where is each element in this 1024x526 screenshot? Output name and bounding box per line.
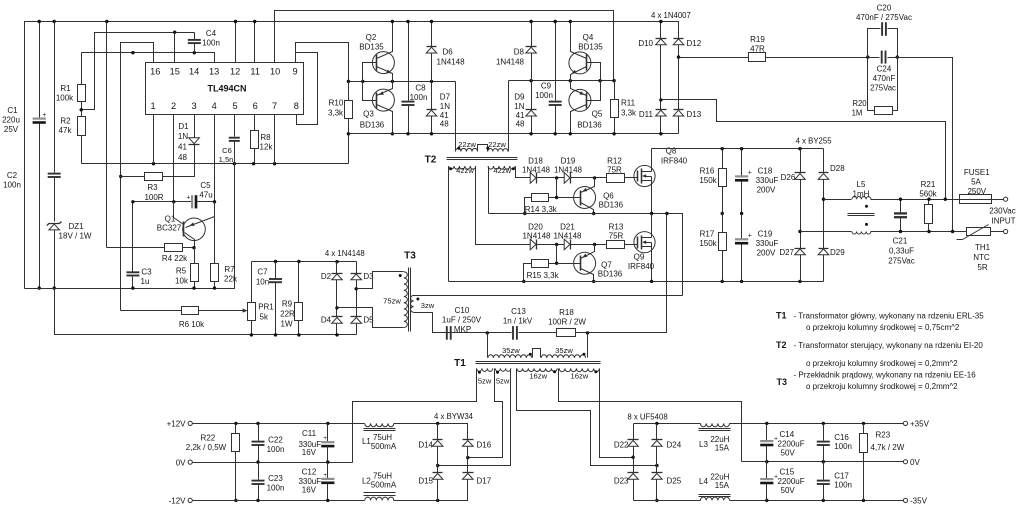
- svg-text:9: 9: [293, 67, 298, 77]
- svg-text:48: 48: [440, 120, 449, 129]
- svg-text:75zw: 75zw: [383, 297, 401, 306]
- transformer T1 core: [476, 362, 601, 364]
- svg-text:C12: C12: [302, 468, 317, 477]
- svg-text:R17: R17: [700, 230, 715, 239]
- diode D16: [463, 440, 492, 450]
- svg-text:Q7: Q7: [601, 261, 612, 270]
- svg-text:C17: C17: [834, 471, 849, 480]
- svg-text:100n: 100n: [3, 181, 21, 190]
- svg-text:D22: D22: [614, 440, 629, 449]
- capacitor C12: [298, 463, 334, 501]
- note T2: [776, 340, 983, 368]
- svg-text:C20: C20: [877, 4, 892, 13]
- svg-text:Q8: Q8: [666, 147, 677, 156]
- svg-text:C15: C15: [780, 468, 795, 477]
- svg-text:100n: 100n: [202, 39, 220, 48]
- capacitor C18: [735, 149, 778, 216]
- transistor Q2 BD135: [359, 20, 394, 82]
- transistor Q7 BD136: [557, 245, 623, 284]
- capacitor C16: [817, 424, 852, 462]
- svg-text:R16: R16: [700, 167, 715, 176]
- svg-text:11: 11: [250, 67, 260, 77]
- svg-text:1N: 1N: [514, 102, 524, 111]
- svg-text:- Transformator sterujący, wyk: - Transformator sterujący, wykonany na r…: [794, 341, 984, 350]
- diode D13: [673, 45, 702, 134]
- svg-text:6: 6: [253, 101, 258, 111]
- capacitor C3: [126, 202, 152, 290]
- mosfet Q9 IRF840: [628, 214, 655, 282]
- svg-text:1N4148: 1N4148: [522, 232, 551, 241]
- wire pin11 stub: [253, 20, 256, 63]
- wire 16zw1 left: [517, 369, 659, 468]
- inductor L2: [362, 472, 468, 503]
- wire ground rail B: [55, 289, 357, 335]
- svg-text:500mA: 500mA: [371, 480, 397, 489]
- svg-text:BD136: BD136: [577, 121, 602, 130]
- svg-text:41: 41: [440, 111, 449, 120]
- capacitor C9: [535, 20, 562, 136]
- svg-text:35zw: 35zw: [555, 346, 573, 355]
- svg-text:2200uF: 2200uF: [778, 439, 805, 448]
- wire pin15 stub: [174, 33, 176, 63]
- note T1: [776, 311, 984, 333]
- resistor R13: [607, 223, 638, 249]
- svg-text:100n: 100n: [535, 91, 553, 100]
- capacitor C11: [298, 424, 334, 463]
- diode D20: [522, 223, 564, 250]
- diode D6: [426, 20, 465, 82]
- svg-text:35zw: 35zw: [502, 346, 520, 355]
- svg-text:C24: C24: [877, 65, 892, 74]
- resistor R1: [56, 53, 86, 117]
- svg-text:16V: 16V: [302, 448, 317, 457]
- svg-text:75R: 75R: [609, 232, 624, 241]
- diode D15: [418, 447, 443, 501]
- resistor R9: [280, 262, 302, 337]
- svg-text:BD136: BD136: [598, 270, 623, 279]
- svg-text:C6: C6: [222, 146, 232, 155]
- transformer T1 secondary 16zw: [517, 368, 600, 380]
- svg-text:1uF / 250V: 1uF / 250V: [442, 316, 482, 325]
- wire hv rail bottom: [449, 280, 824, 283]
- wire T3 primary bottom: [337, 308, 404, 328]
- wire -12V rail: [193, 499, 365, 502]
- terminal mains N: [1004, 229, 1008, 233]
- transistor Q6 BD136: [557, 178, 624, 216]
- diode D27: [779, 180, 805, 282]
- svg-text:5zw: 5zw: [496, 377, 510, 386]
- transformer T2 42zw windings: [449, 166, 516, 175]
- wire ground rail A: [25, 164, 235, 289]
- resistor R10: [328, 82, 353, 164]
- svg-text:0V: 0V: [176, 458, 186, 467]
- svg-text:C10: C10: [455, 306, 470, 315]
- svg-text:Q9: Q9: [634, 253, 645, 262]
- resistor R12: [607, 157, 638, 183]
- resistor R2: [59, 117, 86, 164]
- svg-text:T1: T1: [454, 358, 466, 369]
- resistor R18: [548, 308, 586, 337]
- mosfet Q8 IRF840: [625, 147, 688, 214]
- diode D11: [639, 45, 667, 136]
- svg-text:Q2: Q2: [366, 33, 377, 42]
- svg-text:100n: 100n: [267, 445, 285, 454]
- resistor R17: [699, 214, 726, 282]
- svg-text:1n / 1kV: 1n / 1kV: [503, 317, 533, 326]
- svg-text:16V: 16V: [302, 486, 317, 495]
- svg-text:R3: R3: [147, 183, 158, 192]
- svg-text:2,2k / 0,5W: 2,2k / 0,5W: [186, 443, 227, 452]
- diode D29: [818, 180, 845, 282]
- wire 3zw top: [414, 295, 683, 297]
- svg-text:560k: 560k: [919, 190, 937, 199]
- svg-text:1: 1: [150, 101, 155, 111]
- diode D17: [463, 447, 492, 486]
- svg-text:Q1: Q1: [165, 215, 176, 224]
- svg-text:L4: L4: [699, 477, 708, 486]
- IC U1 TL494CN: [146, 63, 304, 115]
- svg-text:R18: R18: [559, 308, 574, 317]
- svg-text:D20: D20: [528, 223, 543, 232]
- svg-text:R10: R10: [329, 99, 344, 108]
- svg-text:1N4148: 1N4148: [553, 232, 582, 241]
- svg-text:Q4: Q4: [583, 33, 594, 42]
- svg-text:R11: R11: [621, 99, 636, 108]
- capacitor C6: [219, 115, 240, 165]
- diode D28: [818, 149, 845, 180]
- svg-text:1,5n: 1,5n: [219, 155, 234, 164]
- svg-text:C21: C21: [893, 237, 908, 246]
- svg-text:8: 8: [294, 101, 299, 111]
- resistor R3: [120, 145, 195, 202]
- transistor Q1 BC327: [157, 202, 215, 248]
- svg-text:15: 15: [170, 67, 180, 77]
- diode D9: [514, 82, 536, 136]
- svg-text:75uH: 75uH: [373, 433, 392, 442]
- svg-text:D16: D16: [477, 440, 492, 449]
- svg-text:C8: C8: [415, 84, 426, 93]
- svg-text:22zw: 22zw: [488, 140, 506, 149]
- svg-text:R21: R21: [921, 180, 936, 189]
- svg-text:5k: 5k: [260, 313, 269, 322]
- wire 16zw2 right: [600, 369, 635, 459]
- svg-text:Q6: Q6: [603, 192, 614, 201]
- diode D4: [321, 280, 343, 337]
- wire T3 primary top: [357, 272, 404, 289]
- svg-text:1N4148: 1N4148: [437, 58, 466, 67]
- svg-text:42zw: 42zw: [493, 166, 511, 175]
- svg-text:o przekroju kolumny środkowej: o przekroju kolumny środkowej = 0,2mm^2: [806, 359, 958, 368]
- svg-text:L5: L5: [857, 180, 866, 189]
- svg-text:14: 14: [189, 67, 199, 77]
- svg-text:1N: 1N: [440, 102, 450, 111]
- svg-text:8 x UF5408: 8 x UF5408: [627, 413, 667, 422]
- wire pin2 stub: [173, 115, 175, 202]
- resistor R6: [121, 307, 248, 330]
- diode D25: [652, 447, 682, 503]
- resistor R20: [852, 58, 898, 118]
- wire 5zw centre tap: [466, 369, 502, 460]
- transistor Q3 BD136: [360, 82, 395, 136]
- wire snubber branch: [576, 214, 667, 335]
- svg-text:41: 41: [178, 143, 187, 152]
- svg-text:D9: D9: [514, 93, 525, 102]
- svg-text:PR1: PR1: [258, 303, 274, 312]
- svg-text:T2: T2: [776, 340, 787, 350]
- svg-text:BC327: BC327: [157, 224, 182, 233]
- wire 3zw bottom: [414, 313, 445, 333]
- svg-text:330uF: 330uF: [756, 176, 779, 185]
- svg-text:T1: T1: [776, 311, 787, 321]
- svg-text:470nF / 275Vac: 470nF / 275Vac: [856, 13, 912, 22]
- wire T1 primary right leg: [587, 333, 589, 358]
- svg-text:500mA: 500mA: [371, 442, 397, 451]
- resistor R16: [699, 149, 726, 216]
- label 4 x 1N4148: [325, 249, 365, 258]
- resistor R8: [251, 115, 274, 164]
- svg-text:D1: D1: [178, 122, 189, 131]
- terminal 0V left: [176, 458, 193, 467]
- wire 42zw right-B: [516, 167, 530, 178]
- wire hv drive top: [530, 177, 537, 179]
- transformer T2: [425, 81, 518, 166]
- svg-text:o przekroju kolumny środkowej: o przekroju kolumny środkowej = 0,75cm^2: [806, 323, 960, 332]
- wire feedback pin15: [80, 31, 195, 112]
- label 4 x 1N4007: [651, 11, 691, 20]
- svg-text:+: +: [748, 170, 752, 177]
- diode D10: [638, 20, 666, 48]
- capacitor C13: [445, 307, 557, 340]
- svg-text:1N4148: 1N4148: [496, 58, 525, 67]
- svg-text:+: +: [748, 233, 752, 240]
- svg-text:50V: 50V: [781, 486, 796, 495]
- wire T1 primary left leg: [487, 333, 489, 358]
- svg-text:D6: D6: [443, 48, 454, 57]
- svg-text:16: 16: [150, 67, 160, 77]
- svg-text:5zw: 5zw: [478, 377, 492, 386]
- diode D26: [781, 149, 806, 182]
- diode D8: [496, 20, 537, 82]
- resistor R22: [186, 424, 240, 503]
- svg-text:- Przekładnik prądowy, wykonan: - Przekładnik prądowy, wykonany na rdzen…: [794, 371, 977, 380]
- svg-text:250V: 250V: [967, 187, 986, 196]
- capacitor C23: [252, 463, 285, 501]
- wire 5zw2 right: [436, 369, 511, 468]
- svg-text:D2: D2: [321, 272, 332, 281]
- transformer T1 secondary 5zw: [477, 368, 511, 385]
- svg-text:-12V: -12V: [169, 497, 187, 506]
- label 230Vac INPUT: [989, 207, 1016, 226]
- transistor Q5 BD136: [569, 81, 603, 136]
- svg-text:0V: 0V: [910, 458, 920, 467]
- svg-text:D4: D4: [321, 315, 332, 324]
- junction: [38, 20, 109, 23]
- svg-text:100k: 100k: [56, 94, 74, 103]
- svg-text:47u: 47u: [199, 191, 212, 200]
- svg-text:R15 3,3k: R15 3,3k: [527, 271, 560, 280]
- svg-text:BD136: BD136: [599, 201, 624, 210]
- svg-text:100R / 2W: 100R / 2W: [548, 318, 586, 327]
- capacitor C10: [442, 306, 482, 340]
- transformer T3: [383, 251, 416, 332]
- wire 42zw left-A: [448, 167, 450, 282]
- svg-text:3: 3: [192, 101, 197, 111]
- label 4 x BY255: [796, 137, 833, 146]
- capacitor C1: [2, 22, 46, 289]
- svg-text:42zw: 42zw: [456, 166, 474, 175]
- svg-text:-35V: -35V: [910, 497, 928, 506]
- diode D5: [351, 280, 375, 335]
- svg-text:100n: 100n: [410, 93, 428, 102]
- diode D7: [426, 82, 450, 136]
- svg-text:275Vac: 275Vac: [888, 257, 915, 266]
- svg-text:C2: C2: [7, 171, 18, 180]
- svg-text:FUSE1: FUSE1: [964, 168, 990, 177]
- svg-text:T3: T3: [777, 377, 788, 387]
- svg-text:C18: C18: [758, 167, 773, 176]
- svg-text:TH1: TH1: [975, 243, 991, 252]
- svg-text:10k: 10k: [175, 277, 189, 286]
- capacitor C19: [735, 214, 778, 282]
- svg-text:1W: 1W: [281, 320, 293, 329]
- wire soft node: [252, 260, 357, 264]
- wire pin12 stub: [234, 20, 237, 63]
- svg-text:1N4148: 1N4148: [522, 166, 551, 175]
- svg-text:10: 10: [270, 67, 280, 77]
- svg-text:D18: D18: [528, 157, 543, 166]
- svg-text:7: 7: [272, 101, 277, 111]
- svg-text:R7: R7: [224, 265, 235, 274]
- svg-text:C3: C3: [141, 268, 152, 277]
- capacitor C20: [856, 4, 912, 58]
- wire drive node right: [509, 79, 616, 82]
- svg-text:4,7k / 2W: 4,7k / 2W: [871, 443, 905, 452]
- svg-text:16zw: 16zw: [571, 372, 589, 381]
- svg-text:15A: 15A: [715, 481, 730, 490]
- junction: [944, 198, 955, 234]
- diode D2: [321, 262, 343, 281]
- transformer T1 primary: [454, 346, 585, 369]
- svg-text:100n: 100n: [834, 481, 852, 490]
- svg-text:5: 5: [233, 101, 238, 111]
- svg-text:0,33uF: 0,33uF: [889, 247, 914, 256]
- capacitor C24: [866, 51, 899, 93]
- wire mains AC2: [898, 58, 953, 232]
- terminal +35V: [903, 420, 929, 429]
- wire 0V rail left: [193, 460, 353, 463]
- label 4 x BYW34: [434, 412, 474, 421]
- svg-text:C13: C13: [511, 307, 526, 316]
- svg-text:18V / 1W: 18V / 1W: [59, 232, 92, 241]
- svg-text:+: +: [186, 195, 190, 202]
- svg-text:220u: 220u: [2, 116, 20, 125]
- transistor Q4 BD135: [569, 20, 604, 81]
- svg-text:D26: D26: [781, 173, 796, 182]
- terminal +12V: [167, 420, 193, 429]
- note T3: [777, 371, 977, 391]
- wire drive node left: [347, 80, 456, 83]
- wire Vref node: [82, 51, 215, 63]
- svg-text:47R: 47R: [750, 45, 765, 54]
- svg-text:2: 2: [171, 101, 176, 111]
- svg-text:BD135: BD135: [578, 43, 603, 52]
- terminal mains L: [1004, 197, 1008, 201]
- resistor R4: [107, 22, 196, 264]
- svg-text:D19: D19: [561, 157, 576, 166]
- svg-text:D10: D10: [638, 39, 653, 48]
- svg-text:R4 22k: R4 22k: [162, 254, 188, 263]
- svg-text:C9: C9: [541, 82, 552, 91]
- svg-text:1u: 1u: [141, 277, 150, 286]
- zener DZ1: [47, 222, 92, 289]
- diode D1: [178, 115, 200, 163]
- capacitor C22: [252, 424, 285, 463]
- svg-text:R5: R5: [176, 267, 187, 276]
- fuse FUSE1: [960, 168, 1004, 204]
- junction: [38, 286, 56, 289]
- svg-text:47k: 47k: [59, 126, 73, 135]
- wire ground rail: [82, 162, 349, 165]
- svg-text:D29: D29: [830, 248, 845, 257]
- svg-text:D8: D8: [514, 48, 525, 57]
- svg-text:T3: T3: [404, 251, 416, 262]
- inductor L4: [699, 472, 904, 502]
- svg-text:L3: L3: [699, 440, 708, 449]
- wire Vcc rail: [25, 22, 679, 289]
- resistor R15: [522, 245, 560, 284]
- svg-text:41: 41: [516, 111, 525, 120]
- svg-text:12k: 12k: [260, 143, 274, 152]
- wire pin10 drive: [275, 11, 614, 81]
- svg-text:R8: R8: [260, 133, 271, 142]
- svg-text:D14: D14: [418, 440, 433, 449]
- svg-text:R9: R9: [282, 300, 293, 309]
- svg-text:NTC: NTC: [973, 253, 990, 262]
- svg-text:+12V: +12V: [167, 420, 187, 429]
- diode D14: [418, 424, 443, 450]
- capacitor C2: [3, 22, 61, 222]
- resistor R5: [175, 248, 198, 290]
- wire +12V rail: [193, 422, 365, 425]
- svg-text:D21: D21: [560, 223, 575, 232]
- wire pin4 stub: [214, 115, 216, 202]
- capacitor C5: [186, 181, 216, 208]
- svg-text:4 x 1N4007: 4 x 1N4007: [651, 11, 691, 20]
- diode D19: [554, 157, 607, 184]
- svg-text:D15: D15: [418, 477, 433, 486]
- svg-text:D17: D17: [477, 477, 492, 486]
- svg-text:T2: T2: [425, 155, 437, 166]
- wire mains AC1: [661, 100, 946, 200]
- terminal -35V: [903, 497, 927, 506]
- svg-text:C23: C23: [268, 474, 283, 483]
- svg-text:C14: C14: [780, 430, 795, 439]
- wire +35V rail: [634, 422, 701, 425]
- svg-text:D25: D25: [667, 477, 682, 486]
- svg-text:22R: 22R: [280, 310, 295, 319]
- inductor L5: [801, 180, 967, 234]
- svg-text:+: +: [323, 472, 327, 479]
- wire pin16 feedback: [119, 43, 154, 311]
- svg-text:MKP: MKP: [454, 325, 471, 334]
- svg-text:Q3: Q3: [363, 110, 374, 119]
- svg-text:IRF840: IRF840: [628, 262, 655, 271]
- svg-text:R23: R23: [876, 431, 891, 440]
- resistor R14: [523, 178, 558, 216]
- svg-text:C5: C5: [200, 181, 211, 190]
- svg-text:R1: R1: [60, 84, 71, 93]
- wire 0V rail right: [742, 460, 904, 463]
